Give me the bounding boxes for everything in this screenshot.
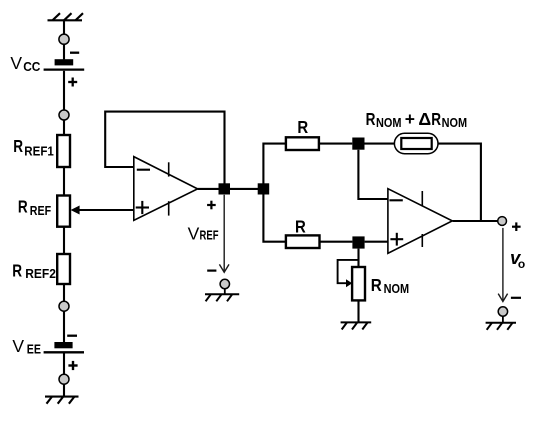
ground RNOM — [341, 322, 372, 329]
vo arrow — [498, 228, 507, 302]
terminal dot — [59, 110, 69, 120]
wire dot to ground — [502, 316, 504, 323]
wire battery to dot — [63, 71, 65, 111]
wire node2 down to bottom branch — [263, 194, 286, 242]
wire node4 to U2 plus input — [365, 241, 388, 243]
battery VCC — [44, 53, 85, 87]
label VREF — [188, 223, 219, 243]
node junction 2 — [258, 183, 270, 194]
wire node3 down to U2 minus input — [358, 150, 388, 199]
battery VEE — [44, 336, 84, 370]
label RNOM+dRNOM — [366, 109, 468, 130]
minus sign vo — [511, 297, 521, 299]
plus sign vo — [512, 222, 521, 231]
svg-text:EE: EE — [27, 343, 41, 357]
svg-text:V: V — [10, 53, 22, 73]
label RREF1 — [13, 136, 54, 158]
wire RREF2 to dot — [63, 284, 65, 301]
terminal dot vref — [220, 279, 229, 288]
vref arrow — [219, 195, 229, 272]
svg-text:CC: CC — [23, 60, 40, 74]
node junction 4 — [352, 236, 364, 248]
terminal dot — [59, 34, 69, 44]
label VCC — [10, 53, 40, 74]
svg-text:REF: REF — [200, 229, 219, 243]
op-amp U2 — [388, 189, 452, 254]
plus sign VREF — [207, 201, 216, 210]
minus sign VREF — [207, 270, 216, 272]
svg-text:o: o — [518, 257, 525, 271]
svg-text:REF2: REF2 — [25, 267, 56, 281]
ground top-left — [48, 13, 84, 20]
terminal dot vo — [498, 307, 507, 316]
svg-text:NOM: NOM — [442, 116, 468, 130]
svg-text:R: R — [297, 117, 308, 137]
label VEE — [12, 336, 41, 357]
label RREF — [18, 197, 52, 218]
wire dot to ground — [63, 384, 65, 397]
label RREF2 — [12, 261, 56, 282]
svg-text:NOM: NOM — [384, 282, 410, 296]
svg-text:R: R — [12, 261, 22, 281]
resistor R top — [286, 137, 319, 150]
ground vo — [486, 323, 516, 330]
svg-text:R: R — [18, 197, 28, 217]
node junction 1 — [219, 183, 231, 194]
terminal dot — [59, 301, 69, 311]
wire R top to node 3 — [319, 143, 352, 145]
resistor RREF2 — [57, 254, 70, 284]
wiper arrow of RREF — [71, 206, 134, 215]
wire RREF to RREF2 — [63, 227, 65, 254]
svg-text:Δ: Δ — [418, 109, 431, 129]
op-amp U1 — [134, 157, 198, 221]
svg-text:REF: REF — [30, 204, 52, 218]
resistor RNOM+dRNOM (stadium outline) — [394, 133, 438, 153]
ground vref — [205, 294, 239, 301]
wire node2 up to top branch — [263, 144, 286, 184]
potentiometer RREF — [57, 196, 70, 227]
potentiometer RNOM — [352, 267, 365, 300]
svg-text:R: R — [371, 275, 382, 295]
wire R bottom to node 4 — [320, 241, 353, 243]
svg-text:R: R — [431, 109, 441, 129]
wire dot to RREF1 — [63, 120, 65, 135]
svg-text:R: R — [295, 217, 306, 237]
wire dot to battery VEE — [63, 311, 65, 342]
terminal dot — [59, 374, 69, 384]
svg-text:V: V — [12, 336, 24, 356]
svg-text:R: R — [13, 136, 23, 156]
wire dot to battery — [63, 44, 65, 59]
wire dot to ground — [224, 289, 226, 295]
wire feedback loop U1 — [105, 112, 224, 184]
wire node4 down to RNOM — [357, 249, 359, 267]
svg-text:R: R — [366, 109, 376, 129]
output terminal — [498, 217, 507, 226]
wire node3 to RNOM+dRNOM — [365, 143, 395, 145]
wire RNOM to ground — [357, 300, 359, 322]
wiper arrow of RNOM — [338, 260, 359, 287]
wire U1 output — [198, 188, 258, 190]
wire RREF1 to RREF — [63, 167, 65, 196]
wire U2 output — [453, 220, 498, 222]
ground bottom-left — [45, 397, 79, 404]
wire stadium to feedback corner — [438, 144, 481, 221]
label RNOM — [371, 275, 409, 296]
svg-text:REF1: REF1 — [24, 144, 54, 158]
svg-text:V: V — [188, 223, 200, 243]
resistor RREF1 — [57, 135, 70, 167]
wire battery to dot — [63, 353, 65, 374]
node junction 3 — [352, 138, 364, 150]
label vo — [510, 247, 525, 271]
svg-text:+: + — [405, 109, 415, 129]
resistor R bottom — [286, 235, 320, 248]
wire ground to dot — [63, 20, 65, 34]
svg-text:NOM: NOM — [376, 116, 402, 130]
